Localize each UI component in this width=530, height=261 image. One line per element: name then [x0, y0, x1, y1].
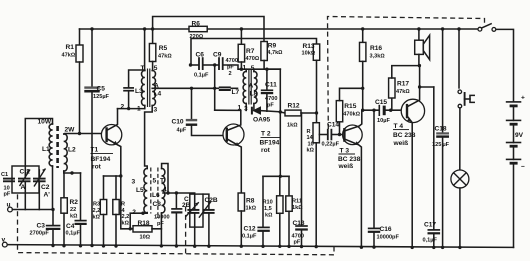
svg-text:C3: C3 — [37, 223, 46, 230]
variable capacitor C2 section A' trimmer — [38, 170, 40, 178]
resistor R13 — [313, 44, 319, 60]
svg-text:L4: L4 — [154, 91, 162, 98]
capacitor C13 — [301, 113, 303, 225]
svg-text:C4: C4 — [66, 223, 75, 230]
svg-text:kΩ: kΩ — [307, 148, 315, 154]
svg-text:A: A — [21, 184, 26, 191]
capacitor C10 electrolytic 4uF — [190, 87, 193, 90]
wire T1 collector row to L3 bottom — [118, 108, 145, 110]
wire L7 bottom pins — [245, 104, 247, 111]
svg-text:2,2: 2,2 — [122, 214, 130, 220]
svg-text:R3: R3 — [93, 202, 100, 208]
svg-text:C2: C2 — [41, 184, 50, 191]
diode OA95 — [251, 107, 253, 115]
resistor R9 — [261, 42, 267, 61]
capacitor C7 coupling at IF column — [215, 87, 219, 89]
transformer L3 L4 core — [147, 69, 149, 108]
svg-text:kΩ: kΩ — [122, 221, 130, 227]
svg-text:R11: R11 — [292, 199, 302, 205]
inductor L3 — [141, 70, 144, 105]
svg-text:T: T — [141, 65, 145, 72]
svg-text:0,1µF: 0,1µF — [242, 234, 257, 240]
resistor R3 — [103, 176, 105, 200]
oscillator transformer L5 L6 core dashed — [150, 168, 152, 214]
capacitor C15 electrolytic 10uF — [363, 109, 379, 111]
svg-text:2700pF: 2700pF — [30, 231, 50, 237]
svg-text:470kΩ: 470kΩ — [343, 112, 360, 118]
svg-text:C17: C17 — [424, 222, 436, 229]
svg-text:125 µF: 125 µF — [432, 142, 450, 148]
svg-text:C6: C6 — [196, 52, 205, 59]
capacitor C9 — [213, 63, 216, 66]
wire C6 C9 junction col down to IF — [214, 65, 216, 110]
svg-text:C15: C15 — [375, 99, 387, 106]
svg-text:10µF: 10µF — [377, 118, 390, 124]
svg-text:BC 238: BC 238 — [338, 156, 361, 163]
svg-text:C11: C11 — [265, 82, 277, 89]
inductor L8 — [254, 71, 257, 103]
svg-text:kΩ: kΩ — [93, 215, 101, 221]
svg-text:2W: 2W — [65, 127, 76, 134]
svg-text:3: 3 — [154, 107, 158, 114]
svg-text:47kΩ: 47kΩ — [396, 89, 410, 95]
variable capacitor C2 section A — [24, 166, 26, 178]
capacitor across L3 with pin 2 loop — [129, 70, 145, 87]
wire battery bottom to rail — [513, 163, 515, 247]
terminal u — [8, 207, 13, 212]
svg-text:pF: pF — [4, 192, 11, 198]
svg-text:2B: 2B — [182, 202, 191, 209]
svg-text:T 2: T 2 — [261, 131, 271, 138]
svg-text:weiß: weiß — [393, 140, 409, 147]
svg-text:−: − — [521, 164, 525, 171]
svg-text:BF194: BF194 — [91, 156, 111, 163]
capacitor C12 — [262, 176, 264, 226]
svg-text:rot: rot — [261, 147, 271, 154]
capacitor C17 — [433, 87, 435, 229]
svg-text:L3: L3 — [135, 88, 143, 95]
wire L2 top to T1 base — [64, 133, 107, 136]
inductor L4 — [152, 70, 155, 105]
wire L1 bottom to u row — [52, 166, 54, 210]
resistor R10 — [279, 176, 281, 196]
svg-text:220Ω: 220Ω — [190, 34, 204, 40]
ferrite antenna loop wire — [25, 119, 52, 167]
svg-text:kΩ: kΩ — [70, 214, 78, 220]
capacitor C14 — [319, 134, 327, 136]
svg-text:C16: C16 — [380, 226, 392, 233]
svg-text:L7: L7 — [232, 89, 240, 96]
terminal v — [2, 242, 7, 247]
inductor L6 — [162, 168, 165, 212]
variable capacitor C2B oscillator section in box — [190, 194, 203, 227]
svg-text:2: 2 — [132, 209, 136, 216]
transistor T4 BC238 — [401, 99, 424, 122]
svg-text:weiß: weiß — [338, 163, 354, 170]
battery 9V — [506, 101, 522, 103]
svg-text:C2B: C2B — [205, 197, 218, 204]
wire AGC bracket y38.5 to R13 — [191, 39, 317, 66]
resistor R4 — [115, 176, 117, 200]
svg-text:L1: L1 — [42, 146, 50, 153]
svg-text:+: + — [521, 95, 525, 102]
wire rail after switch to battery — [496, 29, 514, 101]
svg-text:0,1µF: 0,1µF — [66, 231, 81, 237]
wire L6 bottom pin 1 to rail — [160, 229, 162, 246]
variable capacitor C2B trimmer — [203, 194, 209, 209]
svg-text:L6: L6 — [152, 192, 160, 199]
svg-text:C1: C1 — [1, 172, 8, 178]
capacitor C3 — [52, 210, 54, 226]
wire L3 bottom pin 1 — [144, 106, 146, 109]
svg-text:0,1µF: 0,1µF — [423, 238, 438, 244]
wire rail down to L3 top pin T — [143, 27, 146, 30]
capacitor C11 — [266, 69, 268, 90]
svg-text:10Ω: 10Ω — [140, 235, 151, 241]
svg-text:10000pF: 10000pF — [377, 235, 400, 241]
inductor L2 — [64, 134, 67, 171]
wire L4 tap A row to IF column — [152, 87, 215, 89]
svg-text:pF: pF — [267, 103, 274, 109]
svg-text:1kΩ: 1kΩ — [287, 123, 298, 129]
svg-text:A': A' — [44, 192, 51, 199]
svg-text:R9: R9 — [268, 43, 277, 50]
svg-text:pF: pF — [227, 65, 234, 71]
svg-text:R15: R15 — [344, 103, 356, 110]
svg-text:pF: pF — [157, 221, 164, 227]
svg-text:R7: R7 — [246, 48, 255, 55]
inductor L7 — [243, 71, 246, 103]
wire top supply rail — [80, 28, 479, 30]
resistor R5 — [151, 27, 154, 30]
svg-text:C12: C12 — [244, 226, 256, 233]
svg-text:1,5: 1,5 — [264, 206, 272, 212]
resistor R15 — [339, 122, 341, 135]
svg-text:R10: R10 — [263, 200, 273, 206]
svg-text:R2: R2 — [70, 199, 79, 206]
dashed module boundary main — [18, 186, 335, 255]
wire L6 top pin T bracket — [162, 164, 168, 194]
svg-text:T1: T1 — [91, 147, 99, 154]
svg-text:0,1µF: 0,1µF — [194, 73, 209, 79]
transformer L7 L8 core — [248, 70, 250, 105]
svg-text:5: 5 — [154, 65, 158, 72]
svg-text:2: 2 — [121, 104, 125, 111]
wire L7 L8 top pins to row — [245, 69, 247, 71]
svg-text:1kΩ: 1kΩ — [246, 206, 257, 212]
svg-text:2,2: 2,2 — [93, 208, 101, 214]
svg-text:R16: R16 — [370, 45, 382, 52]
svg-text:10000: 10000 — [154, 215, 170, 221]
capacitor C8 — [175, 193, 177, 208]
wire bracket row for R10 R11 C12 — [263, 175, 289, 177]
svg-text:L5: L5 — [136, 187, 144, 194]
wire L6 tap 4 row to C8 and C2B — [163, 192, 195, 194]
svg-text:47kΩ: 47kΩ — [158, 54, 172, 60]
svg-text:1: 1 — [137, 106, 141, 113]
svg-text:OA95: OA95 — [253, 117, 271, 124]
wire main col to volume bracket — [279, 69, 281, 176]
capacitor C18 electrolytic 125uF — [441, 27, 444, 30]
svg-text:4700: 4700 — [265, 96, 277, 102]
resistor R8 — [238, 193, 244, 211]
svg-text:3: 3 — [132, 179, 136, 186]
svg-text:BF194: BF194 — [260, 140, 280, 147]
core of antenna coil — [56, 126, 59, 168]
svg-text:125µF: 125µF — [93, 94, 110, 100]
svg-text:T 4: T 4 — [394, 123, 404, 130]
tuning capacitor box — [12, 166, 39, 193]
svg-text:R8: R8 — [246, 198, 255, 205]
resistor R14 — [316, 113, 318, 123]
switch — [478, 27, 482, 31]
svg-text:R5: R5 — [159, 45, 168, 52]
resistor R12 — [280, 112, 285, 113]
svg-text:v: v — [2, 237, 6, 244]
wire bottom ground rail — [7, 245, 514, 248]
svg-text:R17: R17 — [397, 81, 409, 88]
svg-text:22: 22 — [70, 207, 76, 213]
svg-text:u: u — [7, 202, 11, 209]
svg-text:0,22µF: 0,22µF — [322, 142, 340, 148]
svg-text:4,7kΩ: 4,7kΩ — [267, 50, 283, 56]
resistor R11 — [288, 176, 290, 196]
resistor R1 — [79, 29, 81, 45]
svg-text:C14: C14 — [327, 122, 339, 129]
wire IF column to T2 collector node row — [215, 109, 241, 111]
capacitor C6 — [189, 63, 192, 66]
dashed partition between tuner and IF — [185, 207, 187, 255]
wire T1 emitter col down to R18 row — [121, 176, 133, 229]
svg-text:C8: C8 — [153, 201, 162, 208]
svg-text:4700: 4700 — [226, 58, 238, 64]
svg-text:C 2: C 2 — [20, 169, 31, 176]
inductor L5 — [144, 168, 147, 212]
svg-text:47kΩ: 47kΩ — [62, 53, 76, 59]
svg-text:R: R — [121, 202, 125, 208]
svg-text:R18: R18 — [138, 220, 150, 227]
svg-text:R6: R6 — [192, 21, 201, 28]
svg-text:5: 5 — [153, 178, 157, 185]
resistor R6 in rail — [189, 26, 207, 31]
svg-text:C9: C9 — [213, 52, 222, 59]
svg-text:4: 4 — [163, 187, 167, 194]
capacitor C5 electrolytic 125uF — [90, 27, 93, 30]
svg-text:kΩ: kΩ — [265, 213, 273, 219]
svg-text:L2: L2 — [68, 147, 76, 154]
resistor R18 — [133, 226, 152, 232]
lamp — [451, 170, 469, 188]
svg-text:R12: R12 — [288, 103, 300, 110]
wire L2 bottom row to R2 and C4 — [64, 171, 81, 173]
svg-text:A: A — [249, 83, 254, 90]
svg-text:470Ω: 470Ω — [246, 56, 260, 62]
wire u row — [12, 209, 53, 211]
inductor L1 — [49, 124, 52, 166]
svg-text:A: A — [154, 83, 159, 90]
transistor T3 BC238 — [343, 125, 363, 145]
svg-text:T: T — [160, 178, 164, 185]
svg-text:R13: R13 — [303, 43, 315, 50]
svg-text:rot: rot — [92, 164, 102, 171]
wire top bypass bracket R5 to R9 — [153, 17, 264, 42]
svg-text:pF: pF — [294, 240, 301, 246]
svg-text:C13: C13 — [293, 220, 305, 227]
svg-text:3,3kΩ: 3,3kΩ — [370, 54, 386, 60]
resistor R7 — [240, 27, 243, 30]
speaker — [417, 27, 420, 30]
svg-text:10kΩ: 10kΩ — [302, 51, 316, 57]
capacitor C1 10pF — [3, 178, 15, 180]
svg-text:R1: R1 — [66, 44, 75, 51]
capacitor C16 — [373, 110, 375, 228]
resistor R2 — [63, 173, 65, 198]
wire L5 bottom pin 2 row — [130, 213, 147, 229]
svg-text:C10: C10 — [172, 119, 184, 126]
wire T1 emitter split bar — [104, 175, 121, 177]
svg-text:4µF: 4µF — [177, 128, 187, 134]
push button — [457, 27, 460, 30]
svg-text:9V: 9V — [515, 132, 524, 139]
svg-text:14: 14 — [307, 135, 314, 141]
resistor R16 — [361, 27, 364, 30]
svg-text:3: 3 — [244, 106, 248, 113]
svg-text:T 3: T 3 — [340, 148, 350, 155]
wire L4 bottom pin 3 to oscillator coil — [145, 106, 153, 169]
transistor T1 BF194 — [101, 125, 121, 145]
capacitor C4 — [80, 173, 82, 220]
svg-text:C18: C18 — [435, 126, 447, 133]
resistor R17 — [391, 98, 393, 110]
svg-text:BC 238: BC 238 — [393, 132, 416, 139]
svg-text:L8: L8 — [250, 91, 258, 98]
svg-text:C5: C5 — [97, 86, 106, 93]
svg-text:2: 2 — [229, 71, 232, 77]
transistor T2 BF194 — [223, 124, 244, 145]
wire T4 collector row to C17 — [420, 86, 434, 88]
